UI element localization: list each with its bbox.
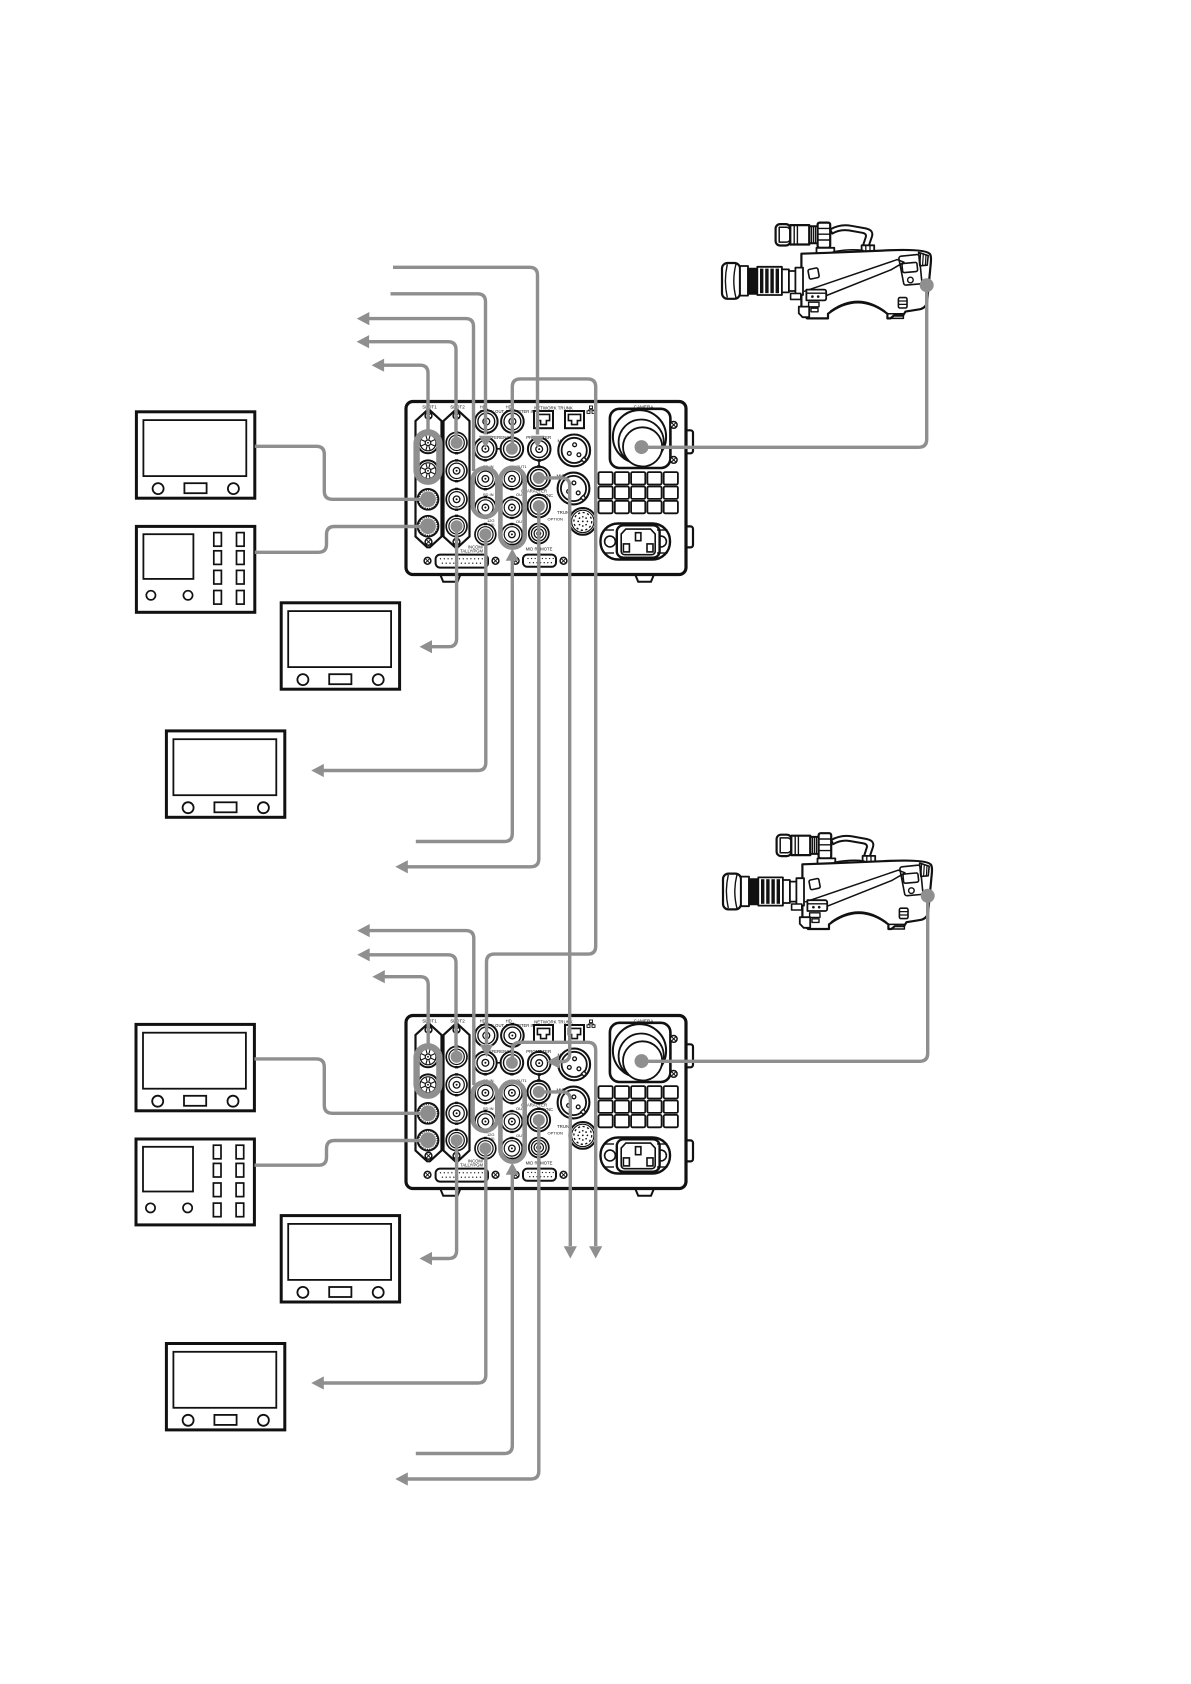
arrow: to monitor M4 (311, 764, 324, 777)
arrow: monitor chain down (564, 1246, 577, 1258)
node: CCU2 12G OUT1 center (479, 1142, 491, 1154)
node: CCU2 MONITOR center (533, 1086, 545, 1098)
arrow: to monitor M8 (311, 1376, 324, 1389)
arrow: into CCU1 REFERENCE (479, 436, 492, 448)
node: CCU1 REFERENCE B center (506, 443, 518, 455)
wire: CCU2 12G OUT1 to monitor M8 (323, 1152, 486, 1383)
monitor M7 (281, 1216, 399, 1302)
monitor M2 (waveform monitor) (136, 526, 254, 612)
wire: CCU2 SD IN loop out (to left) (369, 931, 474, 1085)
node: CCU2 SLOT2-1 center (451, 1051, 463, 1063)
wire: CCU1 MONITOR down to CCU2 PROMPTER (543, 478, 570, 1062)
wire: CCU1 SLOT1-4 to monitor M2 (255, 527, 424, 553)
wire: aux feed up into CCU1 OUT group (416, 561, 513, 842)
node: CCU2 CAMERA connector center (635, 1054, 649, 1068)
arrow: into CCU1 PROMPTER (531, 436, 544, 448)
node: camera 1 cable gland (920, 278, 934, 292)
node: CCU1 CHARACTER center (533, 500, 545, 512)
wire: CCU1 SLOT2-4 to monitor M3 (431, 530, 457, 647)
wire: monitor M5 to CCU2 SLOT1-3 (254, 1059, 421, 1113)
camera 2 (723, 833, 932, 929)
wire: CCU2 SLOT2-1 out (to left) (369, 955, 456, 1052)
wire: reference video into CCU1 REFERENCE (391, 294, 486, 435)
arrow: into CCU2 REFERENCE (loop through) (480, 1045, 493, 1057)
wire: CCU2 SLOT1 group out (to left) (384, 977, 428, 1048)
arrow: into CCU2 PROMPTER (from CCU1 MONITOR) (547, 1055, 560, 1068)
node: camera 2 cable gland (921, 889, 935, 903)
node: CCU1 MONITOR center (533, 472, 545, 484)
arrow: SLOT2-1 line 2 pointing left (357, 948, 370, 961)
wire: CCU2 MONITOR down to next unit (543, 1092, 570, 1246)
wire: CCU1 SLOT2-1 out (to left) (368, 342, 456, 438)
wire: aux feed up into CCU2 OUT group (416, 1175, 513, 1454)
CCU 1 rear panel (406, 402, 693, 582)
wire: prompter program feed into CCU1 PROMPTER (393, 267, 538, 434)
arrow: to monitor M7 (420, 1252, 433, 1265)
wire: camera 2 cable to CCU2 CAMERA (646, 896, 928, 1062)
monitor M5 (picture monitor) (136, 1024, 254, 1110)
wire: monitor M1 to CCU1 SLOT1-3 (255, 446, 421, 499)
wire: CCU2 REFERENCE loop-through down (512, 1042, 595, 1246)
node: CCU1 SLOT2-4 center (451, 520, 463, 532)
camera 1 (722, 223, 931, 319)
wire: CCU1 SD IN loop out (to left) (369, 319, 474, 471)
monitor M3 (281, 603, 399, 689)
arrow: reference chain down (589, 1246, 602, 1258)
wire: CCU1 SLOT1 group out (to left) (383, 365, 428, 434)
node: CCU1 12G OUT1 center (479, 528, 491, 540)
loop: CCU2 OUT group (500, 1082, 524, 1162)
CCU 2 rear panel (406, 1016, 693, 1196)
monitor M6 (waveform monitor) (136, 1139, 254, 1225)
node: CCU2 SLOT2-4 center (451, 1134, 463, 1146)
arrow: SD IN line 2 pointing left (357, 924, 370, 937)
monitor M4 (166, 731, 284, 817)
arrow: SLOT2-1 line pointing left (357, 335, 370, 348)
wire: CCU1 CHARACTER SYNC out to left (407, 511, 539, 867)
loop: CCU2 SD IN group (473, 1082, 498, 1131)
arrow: up into CCU2 OUT group (506, 1163, 519, 1175)
loop: CCU1 SD IN group (473, 468, 498, 517)
node: CCU1 CAMERA connector center (635, 440, 649, 454)
wire: CCU1 12G OUT1 to monitor M4 (323, 538, 486, 771)
wire: camera 1 cable to CCU1 CAMERA (646, 285, 927, 447)
node: CCU2 REFERENCE B center (506, 1057, 518, 1069)
wire: CCU1 REFERENCE loop-through down to CCU2 REFERENCE (487, 379, 596, 1045)
wire: CCU2 CHARACTER SYNC out to left (407, 1125, 539, 1479)
arrow: SD IN line pointing left (357, 312, 370, 325)
arrow: CHARACTER SYNC line pointing left (395, 860, 408, 873)
arrow: SLOT1 line pointing left (372, 359, 385, 372)
monitor M1 (picture monitor, top left) (136, 412, 254, 498)
wire: CCU2 SLOT2-4 to monitor M7 (431, 1144, 457, 1259)
loop: CCU1 OUT group (500, 468, 524, 548)
node: CCU1 SLOT2-1 center (451, 437, 463, 449)
arrow: SLOT1 line 2 pointing left (372, 970, 385, 983)
node: CCU2 CHARACTER center (533, 1114, 545, 1126)
wire: CCU2 SLOT1-4 to monitor M6 (254, 1141, 424, 1166)
loop: CCU2 SLOT1 group (417, 1046, 440, 1095)
arrow: CHARACTER SYNC 2 line pointing left (395, 1472, 408, 1485)
arrow: up into CCU1 OUT group (506, 549, 519, 561)
loop: CCU1 SLOT1 group (417, 432, 440, 481)
arrow: to monitor M3 (420, 640, 433, 653)
monitor M8 (166, 1344, 284, 1430)
